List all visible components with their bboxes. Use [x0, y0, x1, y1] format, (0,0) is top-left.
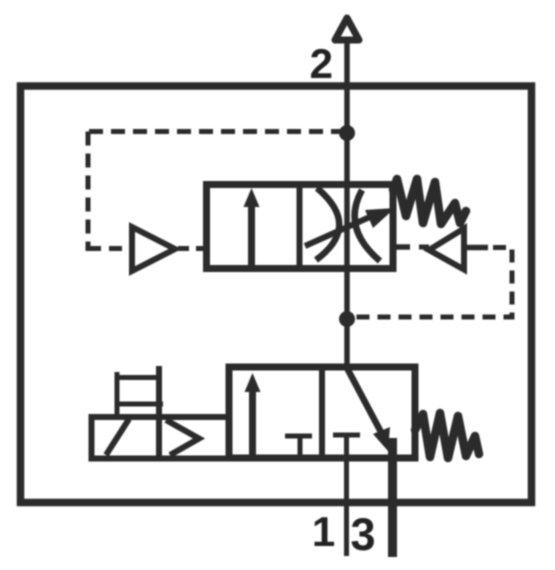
throttle adjust arrow — [305, 216, 372, 246]
junction dot top — [339, 125, 355, 141]
detent rung 1 — [115, 375, 159, 380]
spring upper valve — [393, 179, 466, 224]
manual lever diagonal — [106, 419, 129, 455]
blocked port T (right cell) — [333, 433, 360, 438]
wire: dashed stub to left pilot — [88, 246, 128, 251]
svg-text:1: 1 — [312, 508, 335, 555]
main valve body — [229, 367, 415, 458]
wire: port 3 line — [388, 438, 397, 557]
wire: dashed pilot line left vertical — [86, 132, 91, 252]
wire: stub right pilot — [464, 245, 488, 251]
detent rung 2 — [115, 402, 163, 407]
wire: main line port 2 — [344, 41, 350, 369]
pilot triangle left — [132, 227, 175, 271]
flow control valve divider — [297, 184, 303, 269]
pilot triangle right — [429, 229, 464, 270]
operator divider — [156, 366, 162, 458]
throttle arc right — [355, 190, 380, 261]
detent ladder left vertical — [115, 372, 120, 416]
svg-text:2: 2 — [310, 40, 333, 87]
svg-text:3: 3 — [350, 509, 375, 560]
flow control valve body — [207, 185, 394, 269]
wire: stub valve to right pilot — [395, 244, 410, 250]
throttle arc left — [316, 188, 339, 260]
flow arrow up (valve left cell) — [249, 383, 256, 458]
main valve divider — [319, 367, 325, 458]
spring main valve — [415, 413, 479, 458]
wire: port 1 line — [344, 458, 349, 556]
wire: dashed stub pilot to valve — [178, 246, 206, 251]
operator box — [92, 417, 230, 459]
flow path diagonal 2 to 3 — [347, 368, 382, 434]
wire: dashed pilot return right — [355, 248, 512, 318]
junction dot middle — [339, 311, 355, 327]
pilot chevron — [166, 420, 199, 455]
enclosure — [21, 86, 532, 503]
blocked port T (left cell) — [285, 434, 312, 439]
wire: dashed pilot line top — [86, 129, 345, 134]
flow arrow up (left cell) — [248, 198, 255, 268]
exhaust triangle port 2 — [335, 18, 359, 40]
